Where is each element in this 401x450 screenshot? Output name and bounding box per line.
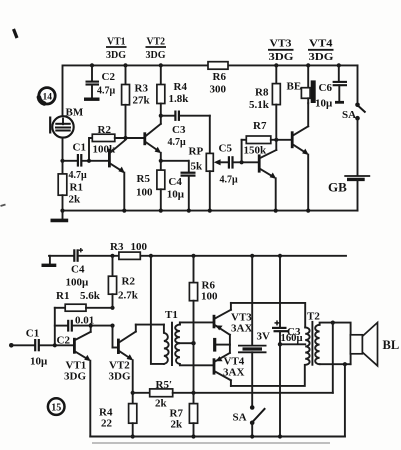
transistor VT3 (fig15, PNP) [214,303,252,335]
capacitor C4 (fig14) [167,161,196,213]
switch SA (fig15) [233,405,266,438]
svg-text:C2: C2 [102,71,116,83]
svg-text:100μ: 100μ [66,277,90,289]
svg-text:VT1: VT1 [107,36,126,48]
stray ink mark left edge [1,205,6,207]
transistor VT1 (fig14) [109,140,126,213]
capacitor C3 (fig15) [272,254,303,439]
svg-text:R3: R3 [110,241,124,253]
svg-text:10μ: 10μ [167,189,185,201]
transformer T2 [305,311,320,366]
svg-text:3DG: 3DG [309,51,335,63]
resistor R7 (fig14) [242,120,279,162]
microphone BM [50,106,84,137]
capacitor C6 (fig14) [315,63,347,109]
battery GB [328,176,370,211]
svg-text:GB: GB [328,180,347,195]
svg-text:1.8k: 1.8k [169,93,190,105]
wire: T2 secondary bottom to BL and rail [320,354,351,437]
wire: BM to C1 junction [60,138,64,163]
wire: R2 column down to VT2 base (fig15) [113,326,118,348]
svg-text:C1: C1 [26,328,39,340]
svg-text:150k: 150k [244,145,268,157]
resistor R1 (fig14) [58,161,83,211]
svg-text:R1: R1 [56,290,69,302]
svg-text:C4: C4 [71,264,85,276]
resistor R1 (fig15) [55,290,113,311]
resistor R6 (fig14, in rail) [208,62,228,96]
wire: VT3 collector line to T2 primary top [231,303,305,328]
svg-text:C3: C3 [172,124,186,136]
svg-text:R1: R1 [70,182,83,194]
svg-text:VT3: VT3 [270,37,293,49]
svg-text:14: 14 [43,93,53,103]
label VT4 3DG (fig14 top) [308,37,334,63]
wire: feedback column from speaker top [332,323,334,393]
svg-text:SA: SA [342,109,356,121]
wire: T2 primary centre tap [280,343,305,345]
svg-text:T2: T2 [307,311,320,323]
wire: T1 secondary top to VT3 base [180,321,213,323]
potentiometer RP (fig14) [189,116,228,213]
wire: left feedback column (fig15) [54,308,56,346]
capacitor C3 (fig14) [161,111,210,149]
transistor VT2 (fig15) [109,325,136,404]
label VT2 3DG (fig14 top) [146,36,167,62]
stray ink mark top-left [14,29,18,38]
transformer T1 [164,309,180,366]
resistor R5' (fig15) [133,379,333,410]
svg-text:100: 100 [131,241,148,253]
wire: circuit 15 top rail [79,255,346,257]
capacitor C2 0.01 (fig15) [55,315,115,347]
resistor R4 (fig14) [157,63,189,115]
figure number 14 [39,88,55,104]
svg-text:3DG: 3DG [109,371,131,383]
svg-text:3DG: 3DG [146,49,166,61]
svg-text:VT2: VT2 [147,36,166,48]
svg-text:3AX: 3AX [231,323,252,335]
svg-text:22: 22 [101,418,113,430]
svg-text:100: 100 [201,291,218,303]
svg-text:R7: R7 [253,120,267,132]
svg-text:3AX: 3AX [223,367,244,379]
svg-text:R2: R2 [98,124,112,136]
wire: circuit 15 bottom rail [90,436,345,438]
resistor R8 (fig14) [249,63,280,140]
wire: T1 secondary bottom to VT4 base [180,364,213,366]
resistor R3 (fig15, in rail) [110,241,148,259]
loudspeaker BL [350,323,399,366]
svg-text:R4: R4 [174,81,188,93]
figure number 15 [48,398,65,415]
svg-text:4.7μ: 4.7μ [168,137,187,148]
ground (fig14 bottom-left) [51,209,69,221]
wire: VT4 collector line to T2 primary bottom [231,365,305,386]
wire: T1 secondary centre tap [180,341,196,345]
transistor VT4 (fig14) [276,103,310,213]
svg-text:R2: R2 [122,276,136,288]
label VT3 3DG (fig14 top) [268,37,294,63]
svg-text:300: 300 [210,84,227,96]
svg-text:BM: BM [66,106,84,118]
wire: VT2 collector to T1 primary top [136,324,164,326]
svg-text:C4: C4 [168,176,182,188]
ground bar (fig15 emitters) [215,338,230,352]
transistor VT4 (fig15, PNP) [214,353,245,386]
svg-text:2k: 2k [155,398,168,410]
resistor R7 (fig15) [170,393,198,439]
svg-text:4.7μ: 4.7μ [220,175,239,186]
earphone BE [287,63,316,103]
svg-text:4.7μ: 4.7μ [69,170,88,181]
svg-text:SA: SA [233,412,247,424]
transistor VT3 (fig14) [259,140,278,213]
svg-text:2k: 2k [171,419,184,431]
svg-text:3DG: 3DG [106,49,126,61]
input terminal and capacitor C1 (fig15) [9,328,73,368]
svg-text:RP: RP [189,146,204,158]
svg-text:5.1k: 5.1k [249,99,270,111]
svg-text:3V: 3V [257,331,271,343]
svg-text:R6: R6 [213,71,227,83]
svg-text:5k: 5k [191,161,204,173]
capacitor C4 (fig15, in rail) [49,248,89,289]
battery 3V (fig15) [238,254,270,407]
label VT1 3DG (fig14 top) [106,36,127,62]
wire: rail to T1 primary bottom [149,254,164,364]
svg-text:C6: C6 [319,82,333,94]
transistor VT2 (fig14) [145,114,163,163]
svg-text:2k: 2k [69,194,82,206]
resistor R2 (fig15) [108,254,138,310]
wire: circuit 14 bottom rail [63,210,358,212]
svg-text:BE: BE [287,81,302,93]
svg-text:R5: R5 [137,173,151,185]
svg-text:T1: T1 [165,309,178,321]
faint scan line under bottom rail [92,442,330,444]
ground (fig15 top-left) [42,256,57,265]
svg-text:100: 100 [136,187,153,199]
svg-text:3DG: 3DG [64,371,86,383]
svg-text:4.7μ: 4.7μ [97,86,116,97]
svg-text:15: 15 [51,403,61,414]
wire: VT3/VT4 emitter junction column [229,335,231,353]
svg-text:160μ: 160μ [281,333,303,344]
svg-text:C1: C1 [73,142,86,154]
svg-text:2.7k: 2.7k [118,290,139,302]
svg-text:C5: C5 [219,143,233,155]
resistor R5 (fig14) [136,161,165,213]
svg-text:5.6k: 5.6k [80,290,101,302]
svg-text:10μ: 10μ [30,355,48,367]
switch SA (fig14) [342,65,366,175]
capacitor C1 (fig14) [63,142,109,182]
svg-text:27k: 27k [133,95,151,107]
svg-text:R8: R8 [255,87,269,99]
svg-text:10μ: 10μ [315,98,333,110]
svg-text:VT4: VT4 [309,37,333,49]
wire: circuit 14 top supply rail [63,65,358,116]
resistor R4 (fig15) [99,404,137,439]
wire: VT2 emitter to C4 [161,160,189,162]
svg-text:3DG: 3DG [269,51,295,63]
resistor R2 (fig14) [87,124,144,163]
resistor R3 (fig14) [122,63,151,138]
capacitor C2 (fig14) [84,63,116,99]
resistor R6 (fig15) [189,254,218,393]
svg-text:BL: BL [383,338,400,352]
wire: T2 secondary top to BL [320,321,351,335]
capacitor C5 (fig14) [219,143,259,186]
svg-text:R3: R3 [135,83,149,95]
transistor VT1 (fig15) [64,324,93,437]
svg-text:R5ʹ: R5ʹ [156,379,173,391]
